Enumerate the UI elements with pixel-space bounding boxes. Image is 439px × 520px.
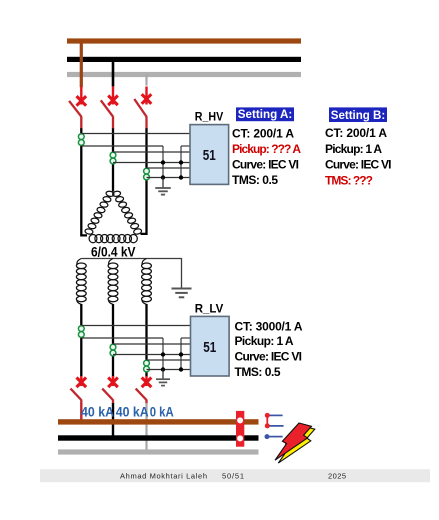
wire: LV feeder C (gray) to bar xyxy=(145,403,147,450)
wire: CT-LV-B s1 to relay R_LV xyxy=(113,343,190,345)
LV busbar L1 (brown) xyxy=(58,419,259,424)
wire: LV feeder A (red) to bar xyxy=(80,403,82,420)
junction dots HV xyxy=(161,160,183,179)
wire: CT-HV-A s1 to relay R_HV xyxy=(81,133,190,135)
winding coil W-LV-A (LV star phase) xyxy=(76,259,86,305)
wire: CT-LV-C s1 to relay R_LV xyxy=(147,359,191,361)
Setting B header xyxy=(329,107,387,122)
ground symbol HV CT earth xyxy=(155,178,171,195)
circuit breaker QL2 (red X and open blade) xyxy=(102,376,118,404)
svg-text:51: 51 xyxy=(203,148,216,164)
wire: LV feeder B (black) to bar xyxy=(112,403,114,436)
svg-text:R_HV: R_HV xyxy=(195,110,224,124)
wire: CT-HV-C s2 return xyxy=(147,177,191,179)
ground symbol transformer neutral earth xyxy=(172,289,192,298)
wire: HV phase C conductor to delta xyxy=(141,128,147,234)
current transformer CT-LV-C xyxy=(144,360,150,372)
transformer delta winding (HV) xyxy=(85,191,142,243)
circuit breaker QL3 (red X and open blade) xyxy=(136,376,152,404)
current transformer CT-LV-B xyxy=(110,344,116,356)
footer bar xyxy=(40,469,430,482)
wire: CT-LV-B s2 return xyxy=(113,354,190,356)
wire: CT-HV-B s1 to relay R_HV xyxy=(113,151,190,153)
current transformer CT-LV-A xyxy=(78,326,84,338)
wire: LV phase A conductor xyxy=(80,304,82,377)
svg-text:6/0.4 kV: 6/0.4 kV xyxy=(91,245,136,260)
wire: HV return bus 1 xyxy=(162,146,164,188)
LV busbar L3 (gray) xyxy=(58,449,259,454)
wire: CT-LV-C s2 return xyxy=(147,369,191,371)
svg-text:Ahmad Mokhtari Laleh: Ahmad Mokhtari Laleh xyxy=(120,471,207,480)
svg-text:40 kA: 40 kA xyxy=(81,403,114,419)
svg-text:CT: 3000/1 A: CT: 3000/1 A xyxy=(235,320,303,334)
relay R_LV box xyxy=(191,316,230,376)
HV busbar L2 (black) xyxy=(67,57,301,62)
wire: LV return bus 2 xyxy=(180,338,182,370)
lightning bolt (short-circuit symbol) xyxy=(275,423,315,463)
winding coil W-LV-C (LV star phase) xyxy=(142,259,152,305)
test probe leads xyxy=(265,413,284,439)
svg-text:TMS: 0.5: TMS: 0.5 xyxy=(235,365,281,379)
wire: HV L2 drop (black) xyxy=(112,59,115,86)
svg-text:Pickup: 1 A: Pickup: 1 A xyxy=(235,334,294,348)
wire: CT-HV-B s2 return xyxy=(113,162,190,164)
fault connector block (red with white terminals) xyxy=(236,411,244,447)
wire: HV L3 drop (gray) xyxy=(145,74,147,86)
svg-text:Curve: IEC VI: Curve: IEC VI xyxy=(325,158,392,172)
circuit breaker QL1 (red X and open blade) xyxy=(71,376,87,404)
wire: LV phase B conductor xyxy=(112,304,114,377)
current transformer CT-HV-A xyxy=(78,134,84,146)
svg-text:40 kA: 40 kA xyxy=(116,403,149,419)
svg-text:Curve: IEC VI: Curve: IEC VI xyxy=(235,349,303,363)
svg-text:Pickup: 1 A: Pickup: 1 A xyxy=(325,142,382,156)
wire: LV winding top bus xyxy=(81,259,181,289)
ground symbol LV CT earth xyxy=(156,370,170,386)
svg-text:Pickup: ??? A: Pickup: ??? A xyxy=(232,142,301,156)
LV busbar L2 (black) xyxy=(58,435,259,440)
wire: LV return bus 1 xyxy=(162,338,164,379)
current transformer CT-HV-B xyxy=(110,152,116,164)
Setting A header xyxy=(236,107,294,121)
wire: relay R_LV return stub xyxy=(181,337,190,339)
footer text xyxy=(120,471,346,480)
svg-text:51: 51 xyxy=(203,340,216,356)
wire: CT-HV-C s1 to relay R_HV xyxy=(147,167,191,169)
svg-text:R_LV: R_LV xyxy=(195,302,224,316)
winding coil W-LV-B (LV star phase) xyxy=(108,259,118,305)
wire: CT-LV-A s2 return xyxy=(81,337,163,339)
wire: relay return stub xyxy=(181,145,190,147)
svg-text:50/51: 50/51 xyxy=(222,471,244,480)
Setting B lines xyxy=(325,126,392,188)
svg-text:TMS: ???: TMS: ??? xyxy=(325,173,373,187)
wire: HV L1 drop (brown) xyxy=(80,41,83,87)
svg-text:TMS: 0.5: TMS: 0.5 xyxy=(232,173,278,187)
wire: CT-LV-A s1 to relay R_LV xyxy=(81,325,190,327)
wire: LV phase C conductor xyxy=(145,304,147,377)
wire: HV phase B conductor to delta apex xyxy=(112,128,114,191)
circuit breaker QH2 (red X and open blade) xyxy=(101,87,118,129)
svg-text:Curve: IEC VI: Curve: IEC VI xyxy=(232,157,299,171)
svg-text:Setting B:: Setting B: xyxy=(331,108,386,122)
junction dots LV xyxy=(161,352,183,371)
R_LV settings lines xyxy=(235,320,303,379)
wire: HV phase A conductor to delta xyxy=(81,128,87,235)
wire: CT-HV-A s2 return xyxy=(81,145,163,147)
svg-text:0 kA: 0 kA xyxy=(150,403,174,419)
circuit breaker QH1 (red X and open blade) xyxy=(69,87,86,129)
circuit breaker QH3 (red X and open blade) xyxy=(134,87,151,129)
svg-text:2025: 2025 xyxy=(328,471,346,480)
svg-text:Setting A:: Setting A: xyxy=(238,107,293,121)
svg-text:CT: 200/1 A: CT: 200/1 A xyxy=(325,126,387,140)
relay R_HV box xyxy=(190,125,229,185)
HV busbar L3 (gray) xyxy=(67,72,301,77)
svg-text:CT: 200/1 A: CT: 200/1 A xyxy=(232,126,294,140)
current transformer CT-HV-C xyxy=(144,168,150,180)
wire: HV return bus 2 xyxy=(180,146,182,178)
HV busbar L1 (brown) xyxy=(67,38,301,43)
Setting A lines xyxy=(232,126,301,187)
